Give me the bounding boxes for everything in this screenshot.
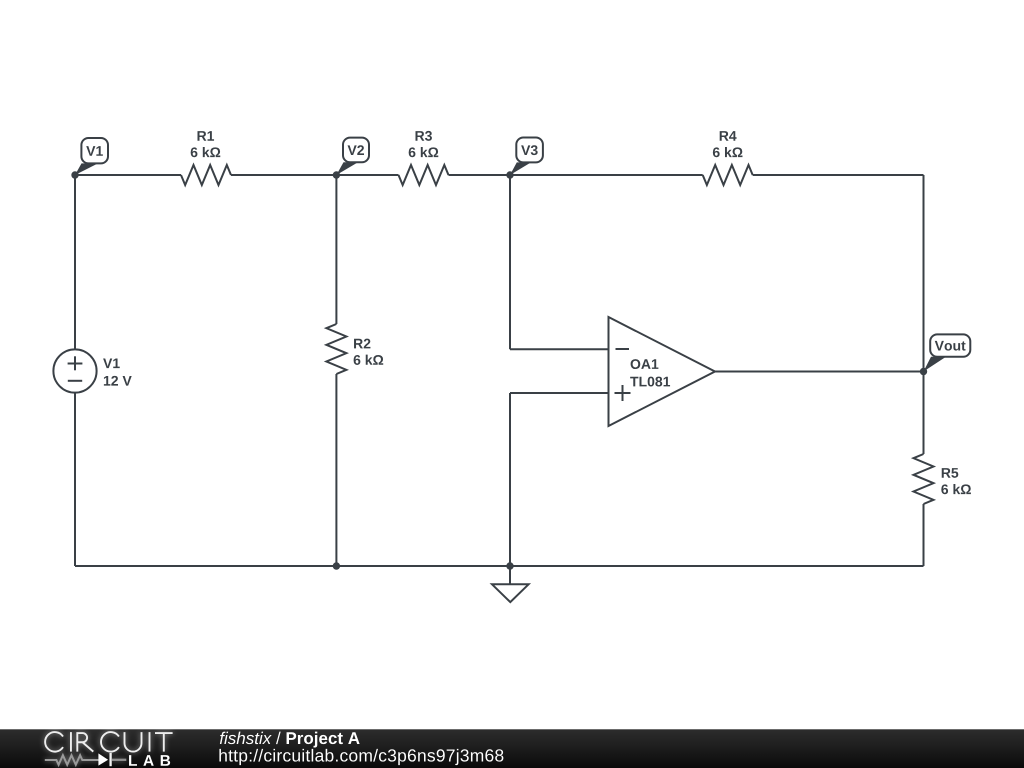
node tag V1 (75, 138, 108, 175)
logo schematic diode (98, 753, 126, 766)
node junction dot V3 (506, 171, 513, 178)
footer url (219, 749, 503, 765)
wire inverting input lead (510, 348, 609, 350)
wire top: R1 to V2 node (231, 174, 399, 176)
wire left vertical: source bottom to bottom wire (74, 393, 76, 566)
node tag V2 (336, 138, 369, 175)
wire right vertical: Vout node to R5 top (923, 372, 925, 455)
voltage source V1 circle (53, 349, 96, 392)
footer project title (220, 732, 360, 748)
node junction dot V1 (71, 171, 78, 178)
wire top: V3 node to R4 (510, 174, 703, 176)
label OA1 name (630, 359, 670, 386)
logo schematic resistor (45, 755, 99, 765)
logo glow (45, 732, 173, 765)
voltage source V1 plus marker (68, 356, 83, 370)
wire top: R3 to V3 node (449, 174, 511, 176)
label R4 value (713, 131, 743, 157)
label R3 value (409, 131, 439, 157)
wire V2 vertical: node to R2 top (335, 175, 337, 324)
wire top: R4 to right corner (753, 174, 924, 176)
logo LAB wordmark (129, 755, 170, 766)
wire left vertical: V1 node to source top (74, 175, 76, 349)
wire top: V2 node to R3 (336, 174, 398, 176)
junction dot V2 bottom (333, 562, 340, 569)
wire bottom rail (75, 565, 924, 567)
wire ground stub (509, 566, 511, 584)
wire V2 vertical: R2 bottom to bottom wire (335, 374, 337, 566)
footer bar (0, 729, 1024, 768)
label V1 value (103, 358, 132, 385)
wire non-inverting input lead (510, 392, 609, 394)
node tag Vout (924, 334, 971, 371)
resistor R4 body (703, 165, 753, 185)
resistor R5 body (914, 454, 934, 504)
logo CIRCUIT wordmark (45, 732, 172, 752)
junction dot ground (506, 562, 513, 569)
resistor R1 body (181, 165, 231, 185)
wire right vertical: R5 bottom to bottom corner (923, 504, 925, 566)
wire top: V1 node to R1 (75, 174, 181, 176)
label R5 value (941, 468, 971, 494)
wire op-amp output to Vout node (715, 371, 924, 373)
wire right vertical: top corner to Vout node (923, 175, 925, 372)
ground symbol (492, 584, 529, 602)
node junction dot V2 (333, 171, 340, 178)
wire non-inverting input down to ground wire (509, 393, 511, 566)
op-amp OA1 triangle (609, 317, 716, 426)
op-amp inverting input marker (616, 348, 630, 350)
node tag V3 (510, 138, 543, 176)
op-amp non-inverting input marker (615, 385, 631, 401)
label R2 value (354, 339, 384, 365)
voltage source V1 minus marker (68, 380, 82, 382)
node junction dot Vout (920, 368, 927, 375)
wire V3 vertical down to inverting input level (509, 175, 511, 349)
resistor R3 body (399, 165, 449, 185)
resistor R2 body (326, 324, 346, 374)
label R1 value (191, 131, 221, 157)
